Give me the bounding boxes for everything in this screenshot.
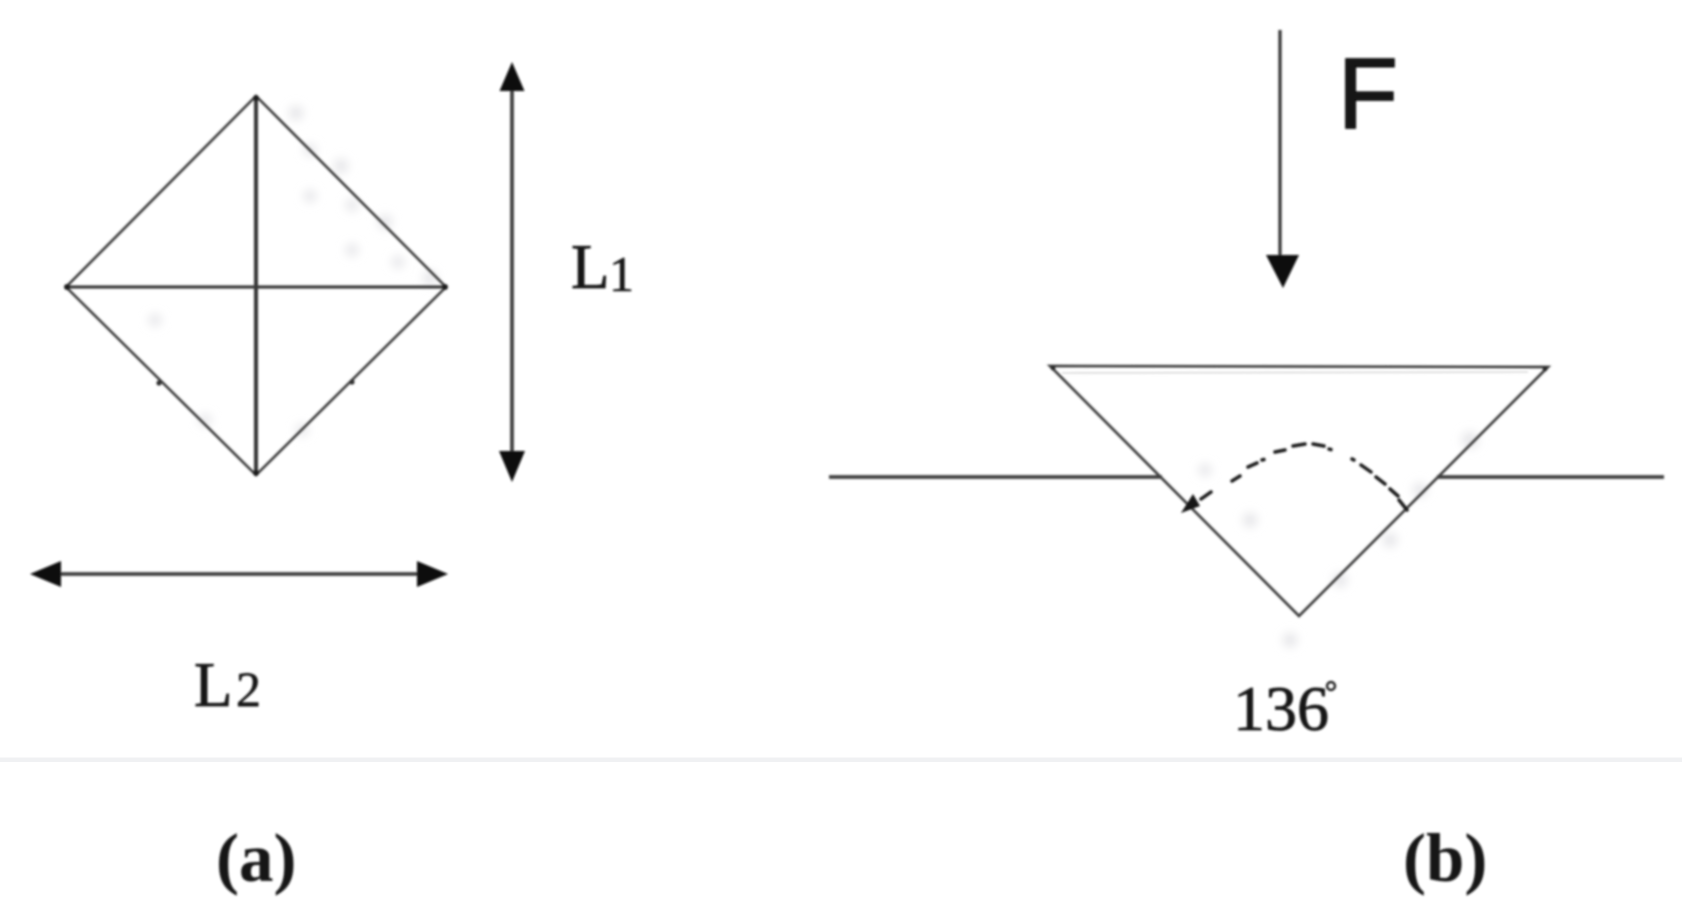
diamond vertical diagonal bbox=[254, 96, 258, 475]
force arrowhead bbox=[1266, 255, 1299, 288]
faint inner line under triangle top edge bbox=[1062, 372, 1528, 373]
dashed angle arc 136 degrees bbox=[1201, 444, 1407, 510]
svg-text:L: L bbox=[194, 650, 232, 720]
kink mark on diamond lower-left edge bbox=[156, 380, 161, 385]
dimension arrow L2 shaft bbox=[58, 572, 420, 576]
svg-text:2: 2 bbox=[236, 661, 261, 717]
L1 arrowhead top bbox=[500, 62, 525, 91]
svg-text:(a): (a) bbox=[216, 820, 296, 896]
force arrow F shaft bbox=[1278, 30, 1281, 258]
L2 arrowhead left bbox=[30, 561, 61, 587]
faint scan band bbox=[0, 758, 1682, 763]
faint scan smudges bbox=[149, 106, 1478, 647]
ink blob at diamond top vertex bbox=[253, 95, 259, 101]
ink blob at diamond left vertex bbox=[64, 284, 70, 290]
L2 arrowhead right bbox=[417, 561, 448, 587]
svg-text:1: 1 bbox=[609, 246, 634, 302]
svg-text:(b): (b) bbox=[1403, 820, 1487, 896]
svg-text:F: F bbox=[1338, 37, 1398, 149]
specimen surface line left bbox=[829, 475, 1162, 479]
ink blob at diamond right vertex bbox=[442, 284, 448, 290]
indenter triangle bbox=[1050, 366, 1548, 616]
diamond horizontal diagonal bbox=[66, 285, 446, 288]
L1 arrowhead bottom bbox=[499, 451, 525, 482]
ink blob at triangle top-right vertex bbox=[1543, 367, 1548, 372]
svg-text:136: 136 bbox=[1233, 673, 1329, 744]
svg-text:L: L bbox=[571, 232, 609, 302]
arc end arrowhead bbox=[1181, 494, 1200, 513]
dimension arrow L1 shaft bbox=[510, 88, 514, 452]
ink blob at diamond bottom vertex bbox=[253, 470, 259, 476]
kink mark on diamond lower-right edge bbox=[349, 379, 354, 384]
ink blob at triangle top-left vertex bbox=[1051, 366, 1056, 371]
specimen surface line right bbox=[1437, 475, 1664, 479]
indentation diamond outline bbox=[66, 96, 446, 475]
